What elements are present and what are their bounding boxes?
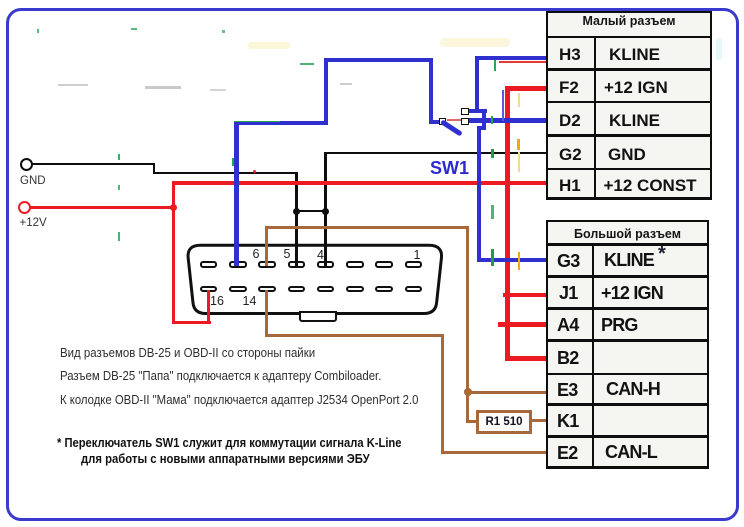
artifact yellow dash xyxy=(518,152,520,172)
wire blue horizontal from pin 7 riser xyxy=(234,121,327,125)
pin 13 slot xyxy=(288,286,306,293)
label header Большой разъем xyxy=(546,228,709,241)
label SW1 xyxy=(430,159,469,177)
label pin J1 xyxy=(559,285,577,302)
pin 8 slot (top row) xyxy=(200,261,218,268)
pin 3 slot xyxy=(346,261,364,268)
wire brown CAN-L horizontal xyxy=(265,334,445,337)
wire red bottom horizontal under connector xyxy=(172,321,211,325)
label net CAN-H (E3) xyxy=(606,381,660,398)
label +12V xyxy=(20,218,47,230)
wire brown CAN-L vertical xyxy=(441,334,444,455)
label header Малый разъем xyxy=(546,15,712,28)
small table row line H3/F2 xyxy=(548,68,710,71)
wire black vertical to pin 4 and up to G2 xyxy=(324,152,327,267)
wire brown CAN-H top horizontal xyxy=(265,226,470,229)
artifact gray streak 3 xyxy=(210,89,226,91)
wire black GND step vertical xyxy=(153,163,155,174)
artifact orange dash 1 xyxy=(517,139,520,150)
junction ground node 2 xyxy=(322,208,329,215)
switch SW1 common terminal xyxy=(439,118,446,125)
artifact yellow dash 2 xyxy=(518,93,520,107)
wire black vertical to pin 5 xyxy=(295,172,298,267)
pin 6 slot xyxy=(258,261,276,268)
artifact green dash 2 xyxy=(491,149,494,158)
wire blue K-line vertical to pin 7 xyxy=(234,121,238,266)
pin number 4 xyxy=(317,249,324,262)
artifact cyan smudge xyxy=(716,38,722,60)
pin 16 slot (bottom row) xyxy=(200,286,218,293)
artifact green dash mid xyxy=(300,63,314,65)
label net +12 IGN (F2) xyxy=(604,79,668,96)
pin 9 slot xyxy=(405,286,423,293)
small table row line D2/G2 xyxy=(548,134,710,137)
wire brown E2 CAN-L horizontal xyxy=(441,451,548,454)
pin number 16 xyxy=(210,295,224,308)
label pin E3 xyxy=(557,382,577,399)
label pin B2 xyxy=(557,350,578,367)
pin 4 slot xyxy=(317,261,335,268)
small table header separator xyxy=(548,36,710,39)
label net KLINE (H3) xyxy=(609,46,660,63)
wire brown E3 CAN-H horizontal xyxy=(466,391,548,394)
artifact green dash 5 xyxy=(232,158,235,166)
artifact orange dash 2 xyxy=(518,252,521,270)
footnote line 1 xyxy=(57,436,401,449)
wire red B2 horizontal xyxy=(505,356,548,361)
label asterisk of KLINE* xyxy=(658,246,666,263)
wire blue H3 riser xyxy=(475,56,479,114)
pin 7 slot xyxy=(229,261,247,268)
label pin A4 xyxy=(557,317,578,334)
pin 15 slot xyxy=(229,286,247,293)
label net +12 IGN (J1) xyxy=(601,285,663,302)
wire red vertical up to pin 16 xyxy=(207,290,211,324)
note line 3 xyxy=(60,394,418,407)
artifact green dot top 3 xyxy=(222,30,225,33)
note line 2 xyxy=(60,370,381,383)
small table row line F2/D2 xyxy=(548,101,710,104)
label GND xyxy=(20,176,46,188)
label net CAN-L (E2) xyxy=(605,444,657,461)
pin 10 slot xyxy=(375,286,393,293)
label pin E2 xyxy=(557,445,577,462)
artifact green dash 1 xyxy=(491,116,494,124)
wire brown down to resistor xyxy=(466,391,469,424)
artifact gray streak 1 xyxy=(58,84,88,86)
wire blue vertical mid riser xyxy=(324,58,328,125)
label net KLINE* (G3) xyxy=(604,252,654,269)
artifact green dash left 2 xyxy=(118,185,120,190)
artifact yellow smudge 2 xyxy=(440,38,510,47)
wire blue from switch throw 1 xyxy=(467,109,487,113)
label pin H1 xyxy=(559,177,581,194)
label pin D2 xyxy=(559,112,581,129)
artifact green dash left 1 xyxy=(118,154,120,160)
pin number 5 xyxy=(284,248,291,261)
wire red J1 stub xyxy=(503,293,548,297)
big connector table box xyxy=(546,220,709,469)
wire blue stub into switch common xyxy=(429,120,440,124)
artifact green dash 7 xyxy=(494,60,497,71)
label net +12 CONST (H1) xyxy=(604,177,697,194)
pin number 14 xyxy=(243,295,257,308)
switch SW1 throw terminal 1 xyxy=(461,108,468,115)
big table row line J1/A4 xyxy=(548,307,707,310)
artifact green dash left 3 xyxy=(118,232,120,241)
label net PRG (A4) xyxy=(601,317,638,334)
wire thin red artifact at switch xyxy=(447,119,461,121)
wire red +12V horizontal from terminal xyxy=(30,206,176,210)
connector J1 OBD-II body xyxy=(180,238,450,330)
big table row line B2/E3 xyxy=(548,373,707,376)
big table row line A4/B2 xyxy=(548,339,707,342)
artifact gray streak 4 xyxy=(340,83,352,85)
label net KLINE (D2) xyxy=(609,112,660,129)
junction +12V node xyxy=(170,204,178,212)
terminal +12V xyxy=(18,201,31,214)
junction CAN-H node xyxy=(464,388,472,396)
artifact green dot top 2 xyxy=(131,28,137,30)
artifact green dot top 1 xyxy=(37,29,39,33)
artifact green dash 6 xyxy=(562,140,565,149)
big table row line K1/E2 xyxy=(548,435,707,438)
resistor R1 510 xyxy=(476,410,532,435)
wire thin red artifact under H3 xyxy=(499,61,548,63)
small table row line G2/H1 xyxy=(548,168,710,171)
pin 2 slot xyxy=(375,261,393,268)
pin 12 slot xyxy=(317,286,335,293)
big table row line E3/K1 xyxy=(548,403,707,406)
wire brown vertical from pin 14 xyxy=(265,290,268,337)
small connector table box xyxy=(546,11,712,200)
wire brown into resistor xyxy=(466,420,477,423)
wire blue G3 KLINE horizontal xyxy=(477,258,548,262)
wire red A4 stub xyxy=(498,322,548,327)
wire black G2 horizontal to small table xyxy=(325,152,548,154)
wire black GND horizontal to ground bus xyxy=(153,172,298,174)
artifact green dash on wire xyxy=(234,121,280,123)
switch SW1 throw terminal 2 xyxy=(461,118,468,125)
wire black bus between junctions xyxy=(295,210,327,212)
wire black GND horizontal from terminal xyxy=(32,163,155,165)
wire blue long vertical to G3 xyxy=(477,126,481,263)
wire red vertical riser at junction xyxy=(172,181,176,325)
label pin G2 xyxy=(559,146,582,163)
big table column divider xyxy=(592,243,594,468)
pin number 6 xyxy=(253,248,260,261)
pin 14 slot xyxy=(258,286,276,293)
big table row line G3/J1 xyxy=(548,275,707,278)
label pin H3 xyxy=(559,46,581,63)
note line 1 xyxy=(60,347,315,360)
artifact yellow smudge 1 xyxy=(248,42,290,49)
artifact red dot on GND wire xyxy=(253,170,256,173)
wire red H1 +12 CONST horizontal xyxy=(172,181,549,185)
artifact gray streak 2 xyxy=(145,86,181,89)
terminal GND xyxy=(20,158,33,171)
wire blue top horizontal xyxy=(324,58,433,62)
wire blue jog vertical xyxy=(482,109,486,130)
connector keying notch xyxy=(299,311,338,321)
wire blue vertical down to switch xyxy=(429,58,433,124)
wire blue D2 KLINE horizontal from switch throw 2 xyxy=(467,118,548,122)
wire brown CAN-H vertical xyxy=(466,226,469,394)
pin 11 slot xyxy=(346,286,364,293)
pin 1 slot xyxy=(405,261,423,268)
wire brown vertical to pin 6 xyxy=(265,226,268,266)
big table header separator xyxy=(548,243,707,246)
pin number 1 xyxy=(414,249,421,262)
footnote line 2 xyxy=(81,452,370,465)
small table column divider xyxy=(594,36,596,200)
artifact ghost blue line xyxy=(502,90,504,121)
artifact green dash 4 xyxy=(491,249,494,266)
switch SW1 lever xyxy=(440,119,463,136)
label net GND (G2) xyxy=(608,146,646,163)
wire blue jog bottom horizontal xyxy=(477,126,486,130)
wire brown resistor to K1 xyxy=(531,419,548,422)
artifact green dash 3 xyxy=(491,205,494,219)
label pin F2 xyxy=(559,79,579,96)
label pin G3 xyxy=(557,253,579,270)
wire red F2 +12 IGN horizontal xyxy=(505,86,548,91)
label pin K1 xyxy=(557,413,578,430)
junction ground node 1 xyxy=(293,208,300,215)
wire blue H3 KLINE horizontal xyxy=(475,56,548,60)
pin 5 slot xyxy=(288,261,306,268)
wire red vertical F2-to-B2 bus xyxy=(505,86,510,361)
